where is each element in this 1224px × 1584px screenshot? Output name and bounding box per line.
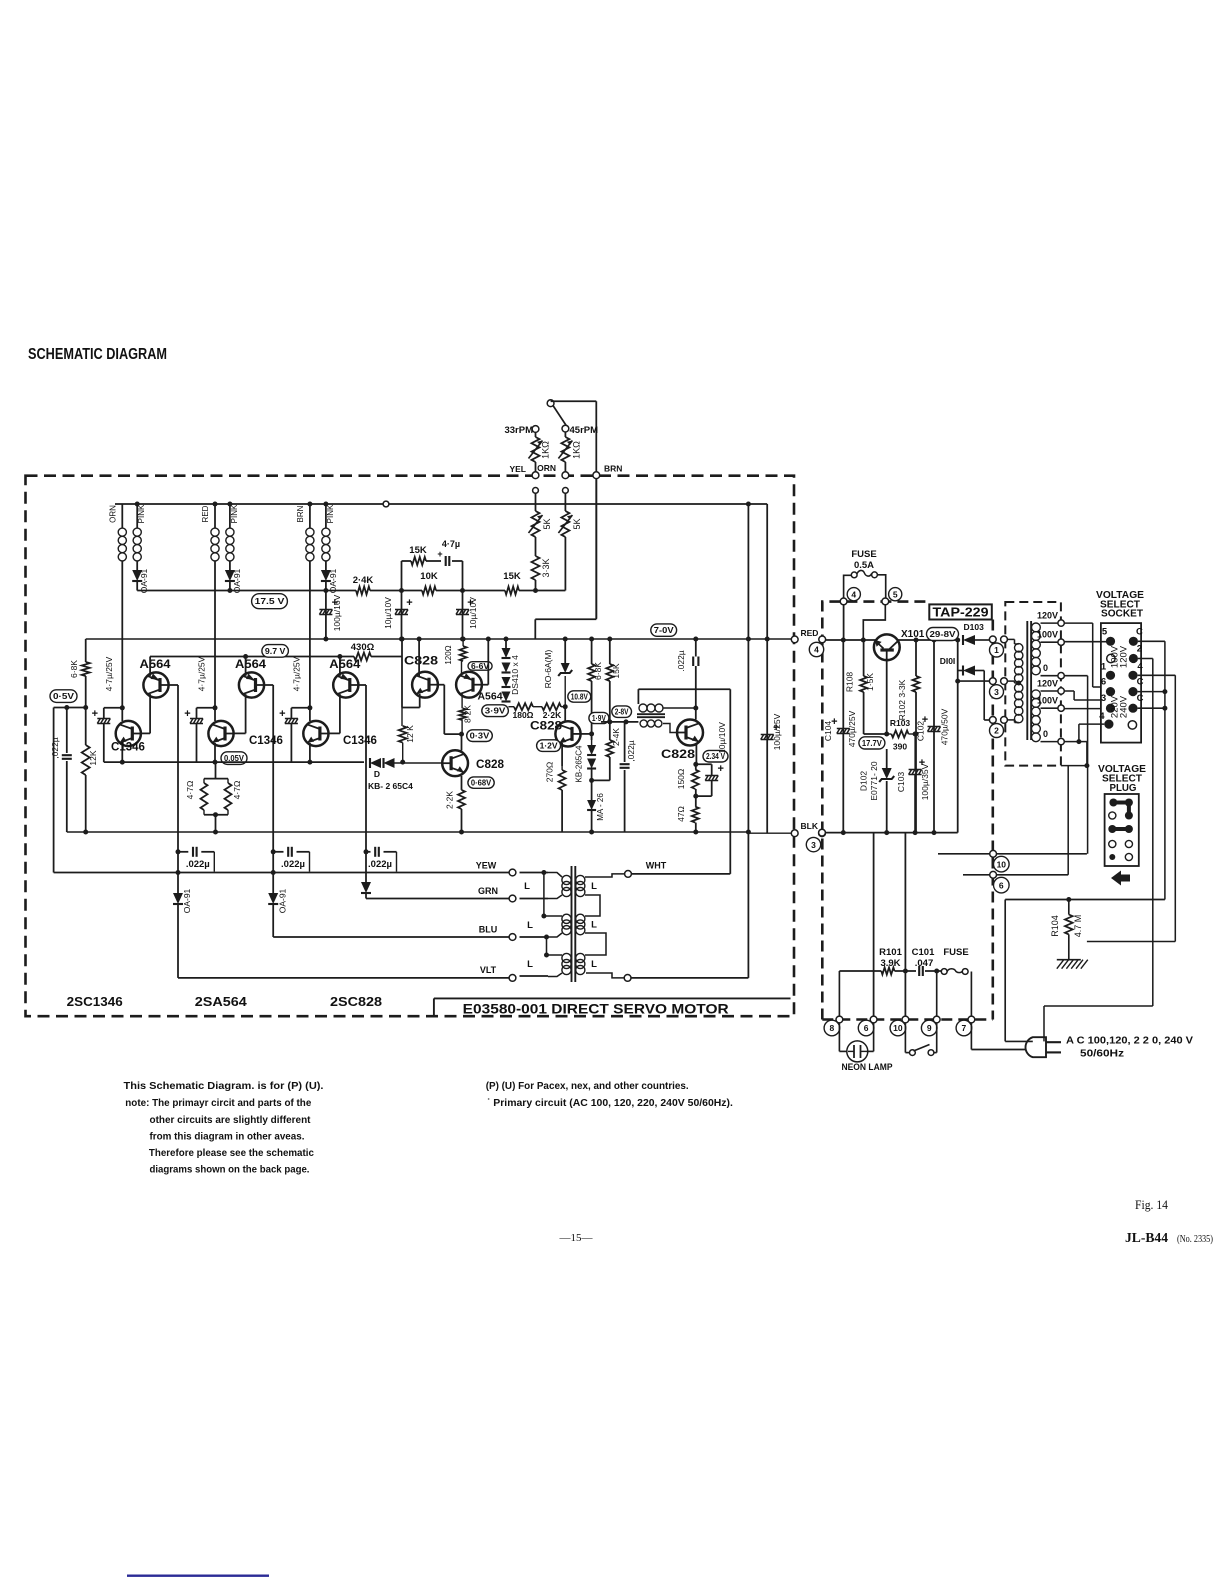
svg-text:470µ/50V: 470µ/50V [940, 708, 950, 745]
svg-text:OA-91: OA-91 [182, 888, 192, 913]
svg-text:A564: A564 [140, 659, 172, 671]
svg-text:(P) (U) For Pacex, nex, and ot: (P) (U) For Pacex, nex, and other countr… [486, 1080, 689, 1092]
svg-text:2SC1346: 2SC1346 [67, 995, 123, 1009]
svg-text:1KΩ: 1KΩ [541, 441, 551, 459]
svg-text:D: D [374, 769, 380, 779]
svg-text:10K: 10K [420, 571, 438, 582]
svg-text:2SC828: 2SC828 [330, 995, 382, 1009]
svg-text:.047: .047 [915, 958, 934, 969]
svg-text:4: 4 [851, 589, 856, 599]
svg-text:120V: 120V [1119, 645, 1130, 668]
svg-text:OA-91: OA-91 [278, 888, 288, 913]
svg-text:diagrams shown on the back pag: diagrams shown on the back page. [150, 1164, 310, 1176]
svg-text:1: 1 [994, 645, 999, 655]
svg-text:120V: 120V [1037, 611, 1058, 621]
svg-text:C: C [1137, 693, 1144, 704]
svg-text:3.9K: 3.9K [880, 958, 900, 969]
svg-text:from this diagram in other ave: from this diagram in other aveas. [150, 1131, 305, 1143]
svg-text:JL-B44: JL-B44 [1125, 1231, 1168, 1246]
svg-text:C104: C104 [823, 721, 833, 742]
svg-text:4·7µ: 4·7µ [442, 539, 460, 549]
svg-text:6·8K: 6·8K [69, 660, 79, 678]
svg-text:SOCKET: SOCKET [1101, 609, 1143, 620]
svg-text:0: 0 [1043, 663, 1048, 673]
svg-text:2-4K: 2-4K [611, 728, 621, 746]
svg-text:TAP-229: TAP-229 [933, 606, 989, 620]
svg-text:.022µ: .022µ [281, 859, 305, 870]
svg-text:5K: 5K [542, 518, 552, 529]
svg-text:9.7 V: 9.7 V [265, 646, 286, 656]
svg-text:5: 5 [893, 589, 898, 599]
svg-text:C: C [1136, 626, 1143, 637]
svg-text:29-8V: 29-8V [930, 629, 956, 639]
svg-text:R104: R104 [1050, 915, 1060, 937]
svg-text:4: 4 [814, 645, 819, 655]
svg-text:C828: C828 [404, 656, 439, 668]
svg-text:X101: X101 [901, 629, 925, 640]
svg-text:A564: A564 [329, 659, 361, 671]
svg-text:PLUG: PLUG [1110, 783, 1137, 794]
svg-text:C101: C101 [912, 947, 935, 958]
svg-text:C: C [1137, 677, 1144, 688]
svg-text:R108: R108 [845, 672, 855, 693]
svg-text:7: 7 [962, 1023, 967, 1033]
svg-text:YEL: YEL [509, 464, 526, 474]
svg-text:10µ/10V: 10µ/10V [468, 597, 478, 629]
svg-text:DI0I: DI0I [940, 656, 956, 666]
svg-text:4·7µ/25V: 4·7µ/25V [291, 656, 301, 691]
svg-text:4: 4 [1137, 661, 1143, 672]
svg-text:50/60Hz: 50/60Hz [1080, 1048, 1124, 1060]
svg-text:C1346: C1346 [343, 735, 377, 747]
svg-text:MA - 26: MA - 26 [596, 793, 605, 821]
svg-text:KB-265C4: KB-265C4 [575, 745, 584, 782]
svg-text:D102: D102 [859, 771, 869, 792]
svg-text:C828: C828 [661, 747, 695, 761]
svg-text:VLT: VLT [480, 965, 497, 975]
svg-text:FUSE: FUSE [851, 549, 876, 560]
svg-text:15K: 15K [409, 545, 427, 556]
svg-text:RED: RED [801, 628, 819, 638]
svg-text:C103: C103 [896, 772, 906, 793]
svg-text:L: L [591, 920, 597, 931]
svg-text:Therefore please see the sche: Therefore please see the schematic [149, 1147, 314, 1159]
svg-text:6: 6 [999, 880, 1004, 890]
svg-text:3: 3 [811, 840, 816, 850]
svg-text:.022µ: .022µ [368, 859, 392, 870]
svg-text:This Schematic Diagram. is: This Schematic Diagram. is for (P) (U). [124, 1080, 324, 1092]
svg-text:˙ Primary circuit (AC 100, 120: ˙ Primary circuit (AC 100, 120, 220, 240… [487, 1097, 733, 1109]
svg-text:R101: R101 [879, 947, 902, 958]
svg-text:3: 3 [1101, 693, 1106, 704]
svg-text:33rPM: 33rPM [504, 425, 533, 436]
svg-text:L: L [527, 959, 533, 970]
svg-text:R102 3-3K: R102 3-3K [897, 679, 907, 720]
svg-text:A564: A564 [477, 691, 502, 703]
svg-text:270Ω: 270Ω [545, 762, 555, 783]
svg-text:2: 2 [1137, 644, 1142, 655]
svg-text:47Ω: 47Ω [676, 806, 686, 822]
svg-text:+: + [92, 708, 98, 720]
svg-text:6: 6 [1101, 677, 1106, 688]
svg-text:L: L [527, 920, 533, 931]
svg-text:10: 10 [893, 1023, 903, 1033]
svg-text:C828: C828 [476, 759, 505, 771]
svg-text:NEON LAMP: NEON LAMP [842, 1062, 894, 1073]
svg-text:2-8V: 2-8V [615, 707, 629, 717]
svg-text:,022µ: ,022µ [50, 737, 60, 759]
svg-text:2: 2 [994, 726, 999, 736]
svg-text:8: 8 [830, 1023, 835, 1033]
svg-text:100µ/16V: 100µ/16V [332, 594, 342, 631]
svg-text:1·5K: 1·5K [865, 673, 875, 691]
svg-text:15K: 15K [611, 663, 621, 678]
svg-text:OA-91: OA-91 [232, 568, 242, 593]
svg-text:RO-6A(M): RO-6A(M) [543, 649, 553, 688]
svg-text:0·68V: 0·68V [471, 778, 492, 788]
svg-text:DS410 x 4: DS410 x 4 [510, 655, 520, 695]
svg-text:PINK: PINK [230, 504, 239, 523]
svg-text:BRN: BRN [604, 464, 622, 474]
svg-text:Fig. 14: Fig. 14 [1135, 1198, 1169, 1212]
svg-text:OA-91: OA-91 [328, 568, 338, 593]
svg-text:+: + [279, 708, 285, 720]
svg-text:D103: D103 [964, 622, 985, 632]
svg-text:2·2K: 2·2K [445, 791, 455, 809]
svg-text:PINK: PINK [326, 504, 335, 523]
svg-text:BLK: BLK [801, 821, 819, 831]
svg-text:100V: 100V [1037, 630, 1058, 640]
svg-text:6: 6 [864, 1023, 869, 1033]
svg-text:YEW: YEW [476, 861, 497, 871]
svg-text:150Ω: 150Ω [676, 769, 686, 790]
svg-text:240V: 240V [1119, 695, 1130, 718]
svg-text:L: L [591, 959, 597, 970]
svg-text:C828: C828 [530, 721, 563, 733]
svg-text:12 K: 12 K [405, 725, 415, 743]
svg-text:.022µ: .022µ [186, 859, 210, 870]
svg-text:8·2K: 8·2K [463, 705, 473, 723]
svg-text:5: 5 [1102, 626, 1108, 637]
svg-text:E03580-001 DIRECT SERVO MOT: E03580-001 DIRECT SERVO MOTOR [463, 1001, 729, 1017]
svg-text:(No. 2335): (No. 2335) [1177, 1233, 1213, 1245]
svg-text:.022µ: .022µ [676, 650, 686, 672]
svg-text:1KΩ: 1KΩ [572, 441, 582, 459]
svg-text:17.5 V: 17.5 V [255, 596, 285, 606]
svg-text:390: 390 [893, 742, 907, 752]
svg-text:L: L [591, 881, 597, 892]
svg-text:4: 4 [1099, 711, 1105, 722]
svg-text:4.7 M: 4.7 M [1073, 915, 1083, 938]
svg-text:0·5V: 0·5V [53, 691, 74, 701]
svg-text:BRN: BRN [296, 505, 305, 522]
svg-text:+: + [406, 597, 412, 609]
svg-text:0.5A: 0.5A [854, 560, 874, 571]
svg-text:2·2K: 2·2K [543, 710, 562, 720]
svg-text:6·8K: 6·8K [593, 662, 603, 680]
svg-text:note: The primayr circit and p: note: The primayr circit and parts of th… [125, 1097, 311, 1109]
svg-text:120Ω: 120Ω [444, 645, 453, 664]
svg-text:45rPM: 45rPM [570, 425, 599, 436]
svg-text:430Ω: 430Ω [351, 642, 375, 653]
svg-text:5K: 5K [572, 518, 582, 529]
svg-text:1: 1 [1101, 661, 1107, 672]
svg-text:4·7Ω: 4·7Ω [232, 781, 242, 800]
svg-text:0·3V: 0·3V [470, 731, 490, 741]
svg-text:+: + [717, 763, 723, 775]
svg-text:OA-91: OA-91 [139, 568, 149, 593]
svg-text:10µ/10V: 10µ/10V [717, 722, 727, 754]
svg-text:C1346: C1346 [111, 742, 145, 754]
svg-text:ORN: ORN [537, 463, 556, 473]
svg-text:BLU: BLU [479, 925, 498, 935]
svg-text:180Ω: 180Ω [513, 710, 534, 720]
svg-text:C1346: C1346 [249, 735, 283, 747]
svg-text:3·9V: 3·9V [485, 706, 506, 716]
svg-text:2SA564: 2SA564 [195, 995, 247, 1009]
svg-text:+: + [184, 708, 190, 720]
svg-text:SCHEMATIC DIAGRAM: SCHEMATIC DIAGRAM [28, 346, 167, 363]
svg-text:3: 3 [994, 687, 999, 697]
svg-text:+: + [437, 549, 442, 559]
svg-text:ORN: ORN [108, 505, 117, 523]
svg-text:—15—: —15— [559, 1232, 594, 1244]
svg-text:1·2V: 1·2V [540, 741, 558, 751]
svg-text:E0771- 20: E0771- 20 [869, 761, 879, 800]
svg-text:L: L [524, 881, 530, 892]
svg-text:C102: C102 [916, 721, 926, 742]
svg-text:470µ/25V: 470µ/25V [847, 710, 857, 747]
svg-text:6-6V: 6-6V [471, 661, 489, 671]
svg-text:FUSE: FUSE [943, 947, 968, 958]
svg-text:7-0V: 7-0V [654, 625, 674, 635]
svg-text:100V: 100V [1037, 696, 1058, 706]
svg-text:A C 100,120, 2 2 0, 240 V: A C 100,120, 2 2 0, 240 V [1066, 1035, 1193, 1047]
svg-text:9: 9 [927, 1023, 932, 1033]
svg-text:120V: 120V [1037, 679, 1058, 689]
svg-text:4·7µ/25V: 4·7µ/25V [197, 656, 207, 691]
svg-text:4·7Ω: 4·7Ω [185, 781, 195, 800]
svg-text:0: 0 [1043, 729, 1048, 739]
svg-text:GRN: GRN [478, 886, 498, 896]
svg-text:10.8V: 10.8V [571, 692, 588, 702]
svg-text:17.7V: 17.7V [862, 738, 882, 748]
svg-text:WHT: WHT [646, 861, 667, 871]
svg-text:100µ/35V: 100µ/35V [920, 763, 930, 800]
svg-text:KB- 2 65C4: KB- 2 65C4 [368, 781, 413, 791]
svg-text:,022µ: ,022µ [626, 740, 636, 762]
svg-text:other circuits are slightly di: other circuits are slightly different [150, 1114, 311, 1126]
svg-text:RED: RED [201, 505, 210, 522]
svg-text:PINK: PINK [137, 504, 146, 523]
svg-text:100µ/25V: 100µ/25V [772, 713, 782, 750]
svg-text:15K: 15K [503, 571, 521, 582]
svg-text:10: 10 [997, 859, 1007, 869]
svg-text:3·3K: 3·3K [541, 558, 551, 577]
svg-text:A564: A564 [235, 659, 267, 671]
svg-text:4·7µ/25V: 4·7µ/25V [104, 656, 114, 691]
svg-text:12K: 12K [88, 750, 98, 765]
svg-text:10µ/10V: 10µ/10V [383, 597, 393, 629]
svg-text:2·4K: 2·4K [353, 575, 374, 586]
